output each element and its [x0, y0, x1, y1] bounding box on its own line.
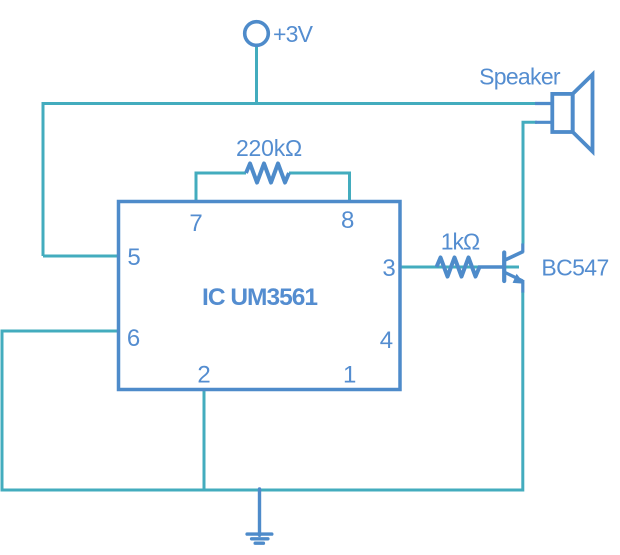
- wire far-left rail: [1, 330, 4, 491]
- svg-text:6: 6: [127, 325, 140, 352]
- svg-text:2: 2: [197, 362, 210, 389]
- wire +3V stub: [255, 46, 258, 104]
- wire pin 5: [43, 255, 120, 258]
- speaker SP1: [535, 75, 593, 152]
- svg-text:8: 8: [341, 207, 354, 234]
- svg-text:Speaker: Speaker: [479, 64, 561, 90]
- svg-text:BC547: BC547: [541, 255, 608, 281]
- resistor R1 220k zigzag: [246, 164, 289, 183]
- svg-text:IC UM3561: IC UM3561: [202, 284, 317, 311]
- wire base lead: [478, 265, 503, 269]
- ground: [247, 489, 272, 543]
- IC U1 UM3561 box: [119, 202, 401, 390]
- transistor Q1 BC547: [504, 244, 524, 293]
- svg-text:+3V: +3V: [273, 21, 314, 47]
- wire pin 6: [2, 330, 120, 333]
- wire top rail: [43, 102, 537, 105]
- svg-text:7: 7: [189, 210, 202, 237]
- resistor R2 1k zigzag: [437, 258, 480, 277]
- wire pin 2: [203, 389, 206, 490]
- wire speaker bottom lead / collector: [523, 122, 537, 243]
- svg-text:4: 4: [380, 327, 393, 354]
- wire left rail: [42, 102, 45, 256]
- +3V terminal: [245, 22, 269, 46]
- svg-text:1kΩ: 1kΩ: [441, 229, 480, 255]
- svg-text:220kΩ: 220kΩ: [236, 135, 302, 161]
- wire emitter to bottom rail: [521, 292, 524, 492]
- svg-text:3: 3: [382, 255, 395, 282]
- wire pin 3: [400, 266, 519, 269]
- svg-text:1: 1: [343, 362, 356, 389]
- wire 220k loop: [196, 173, 246, 202]
- svg-text:5: 5: [127, 244, 140, 271]
- wire bottom rail: [1, 489, 523, 492]
